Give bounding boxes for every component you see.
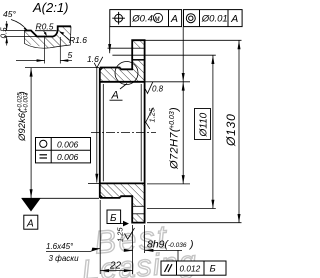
hatch upper wall band [100, 40, 145, 82]
bolt hole lower edges [132, 205, 144, 207]
position tolerance frame [110, 10, 182, 27]
svg-text:R1.6: R1.6 [69, 35, 87, 45]
svg-text:8h9(: 8h9( [147, 238, 170, 250]
watermark Best [93, 218, 170, 260]
svg-text:1.6: 1.6 [87, 54, 99, 64]
bolt hole upper edges [132, 47, 144, 49]
svg-text:+0.03: +0.03 [169, 111, 176, 129]
frame circularity / profile [36, 138, 91, 163]
dimension O72H7 line [182, 82, 184, 184]
dimension text O130 [224, 113, 238, 147]
svg-text:А: А [26, 219, 34, 230]
svg-text:1.25: 1.25 [116, 227, 125, 242]
extension line left bottom (O92) [22, 197, 100, 199]
ext line bore bottom left [88, 182, 99, 184]
ext line bore bottom right [147, 183, 190, 185]
bolt hole upper ext to leader [108, 47, 133, 49]
detail circle A on main view [115, 62, 138, 85]
svg-text:Ø72H7(: Ø72H7( [169, 127, 181, 170]
dimension O130 line [238, 40, 240, 222]
part outline [100, 40, 145, 222]
svg-text:Ø130: Ø130 [224, 113, 238, 147]
ext line 22 left [99, 200, 101, 274]
svg-text:А: А [170, 13, 178, 25]
detail view hatch [25, 26, 72, 48]
hatch lower wall band [100, 183, 145, 206]
datum B box [107, 210, 121, 224]
svg-text:3 фаски: 3 фаски [49, 254, 80, 263]
detail view profile [25, 26, 72, 36]
svg-text:А: А [111, 90, 119, 102]
position frame leader [109, 27, 111, 54]
boxed dimension O110 [195, 109, 211, 140]
svg-text:А: А [230, 13, 238, 25]
svg-text:-0.036: -0.036 [168, 242, 187, 249]
parallelism frame leader [177, 250, 179, 261]
ext line bolt hole center lower [147, 208, 216, 210]
ext line 22 right / 8h9 left [132, 225, 134, 274]
svg-text:Ø0.4: Ø0.4 [131, 14, 153, 25]
dimension 22 [100, 270, 132, 272]
parallelism frame [161, 261, 226, 275]
dimension 8h9 [126, 249, 133, 251]
bore chamfer circle right [140, 84, 142, 181]
dimension O92k6 line [30, 68, 32, 199]
roughness 1.25 flange face [125, 228, 135, 239]
left face corner chamfers [100, 68, 103, 71]
hatch lower flange strip [132, 214, 144, 223]
ext line 8h9 right [144, 225, 146, 253]
watermark Leasing [81, 245, 199, 278]
svg-text:): ) [17, 91, 28, 95]
svg-text:Б: Б [210, 264, 216, 275]
ext line flange bottom right [147, 222, 242, 224]
svg-text:0.006: 0.006 [57, 140, 79, 150]
svg-text:0.8: 0.8 [152, 85, 164, 94]
centerline axis [91, 132, 156, 134]
ext line flange top right [145, 39, 242, 41]
bore chamfer circle left [102, 84, 104, 181]
svg-text:0.5: 0.5 [0, 27, 8, 39]
leader line to bore left [96, 68, 98, 183]
bore bottom edge [100, 182, 145, 184]
svg-text:0.006: 0.006 [57, 152, 79, 162]
svg-text:1.6x45°: 1.6x45° [46, 242, 74, 251]
svg-text:0.012: 0.012 [180, 263, 201, 273]
ext line bore top right [145, 81, 190, 83]
svg-text:5: 5 [68, 50, 73, 60]
bore top edge [100, 81, 145, 83]
detail view break line [25, 26, 72, 48]
datum A box [24, 215, 38, 229]
svg-text:Ø92k6(: Ø92k6( [17, 109, 28, 142]
svg-text:Ø110: Ø110 [199, 112, 210, 137]
svg-text:А(2:1): А(2:1) [32, 0, 68, 15]
concentricity frame leader [182, 27, 184, 82]
svg-text:R0.5: R0.5 [36, 21, 54, 31]
svg-text:1.25: 1.25 [148, 107, 157, 122]
dimension O110 line [212, 55, 214, 208]
roughness 1.25 right face [146, 108, 154, 129]
dimension text O72H7 [169, 107, 181, 170]
svg-text:45°: 45° [3, 9, 16, 19]
dimension text O92k6 [17, 91, 30, 142]
roughness 0.8 on bore [145, 82, 153, 94]
svg-text:Б: Б [110, 213, 117, 224]
concentricity frame [184, 10, 243, 27]
ext line bolt hole center upper [112, 54, 215, 56]
detail 5 dimension [44, 38, 46, 64]
svg-text:м: м [154, 14, 160, 23]
svg-text:22: 22 [109, 261, 122, 272]
datum A triangle [22, 199, 41, 212]
svg-text:Ø0.01: Ø0.01 [201, 14, 228, 25]
datum B leader triangle [121, 223, 123, 225]
extension line left top (O92) [25, 67, 99, 69]
detail 0.5 dimension [4, 29, 25, 31]
